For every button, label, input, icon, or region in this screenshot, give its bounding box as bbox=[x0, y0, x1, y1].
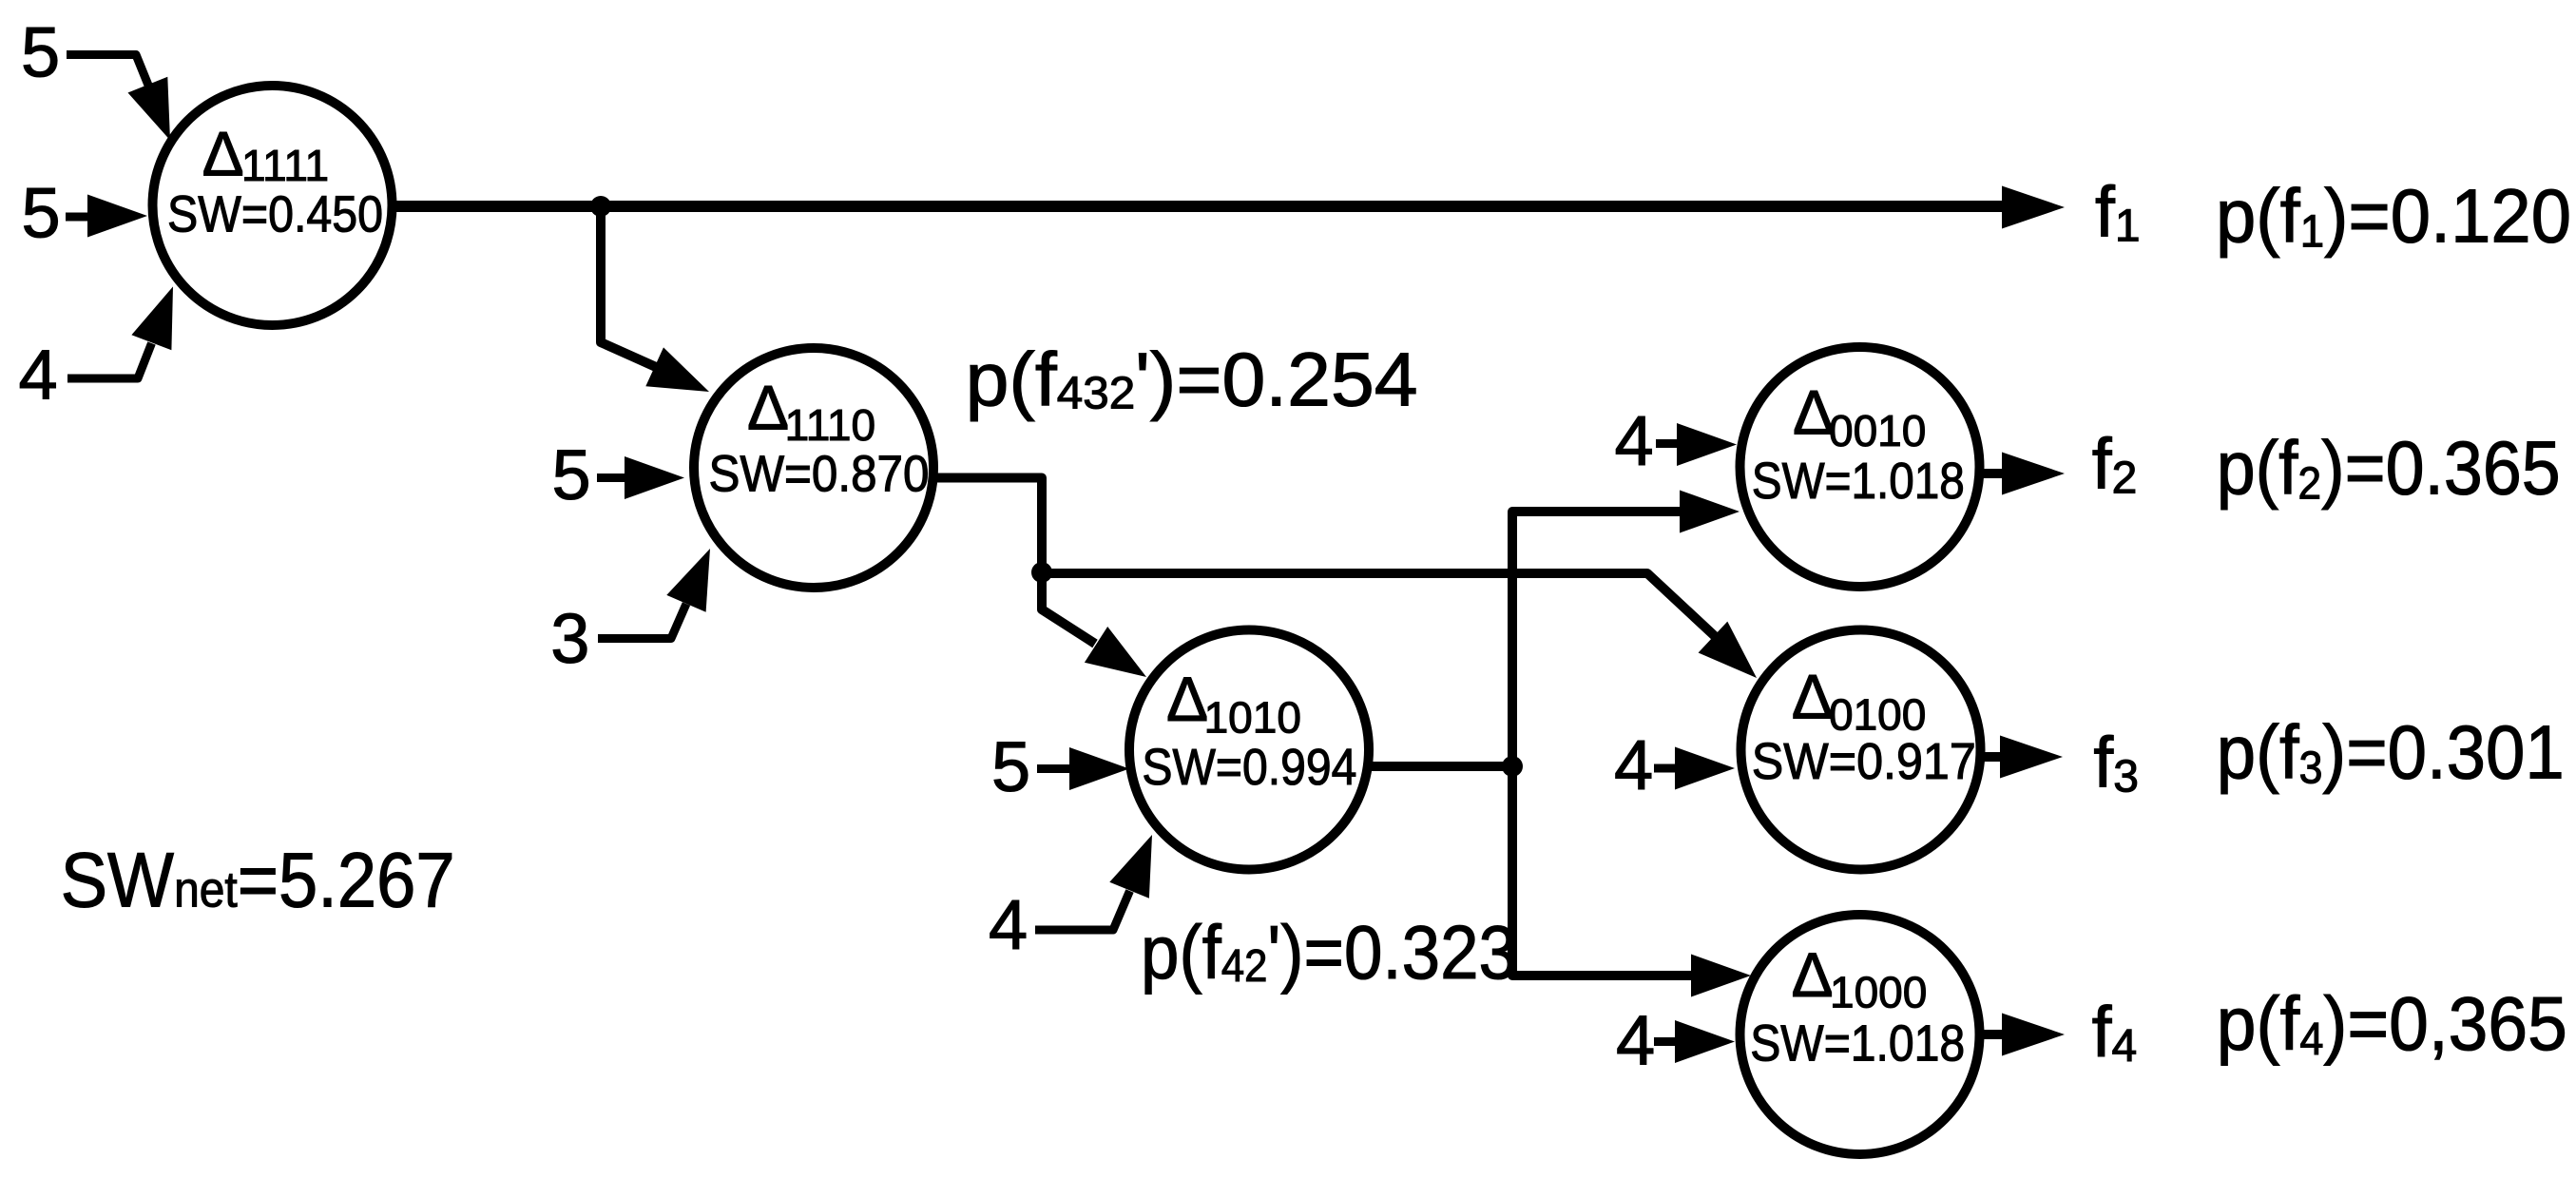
svg-text:SW=0.450: SW=0.450 bbox=[167, 186, 383, 243]
svg-text:1010: 1010 bbox=[1204, 692, 1301, 742]
arrow: input 4 into D1010 bbox=[1109, 835, 1152, 899]
wire: input 5 stub into D1010 bbox=[1037, 764, 1072, 773]
svg-text:Δ: Δ bbox=[1166, 664, 1208, 734]
arrow: input 3 into D1110 bbox=[666, 549, 710, 612]
adder node D1110 circle bbox=[694, 348, 933, 588]
junction node B bbox=[1031, 562, 1052, 583]
arrow into D0010 lower-left bbox=[1680, 491, 1740, 533]
arrow: f3 output arrowhead bbox=[2000, 736, 2063, 779]
arrow: f4 output arrowhead bbox=[2002, 1014, 2065, 1056]
arrow: f2 output arrowhead bbox=[2002, 453, 2065, 495]
svg-text:1000: 1000 bbox=[1830, 968, 1927, 1017]
wire: junction C up then right into D0010 lower input bbox=[1512, 512, 1682, 766]
adder node D0010 circle bbox=[1740, 347, 1980, 587]
svg-text:5: 5 bbox=[21, 13, 60, 92]
svg-text:1111: 1111 bbox=[241, 141, 329, 190]
svg-text:SW=0.870: SW=0.870 bbox=[709, 445, 930, 502]
adder node D1010 circle bbox=[1129, 630, 1369, 870]
svg-text:p(f1)=0.120: p(f1)=0.120 bbox=[2216, 174, 2571, 259]
svg-text:p(f4)=0,365: p(f4)=0,365 bbox=[2217, 981, 2567, 1066]
svg-text:1110: 1110 bbox=[785, 400, 876, 450]
svg-text:Δ: Δ bbox=[202, 119, 244, 189]
svg-text:p(f3)=0.301: p(f3)=0.301 bbox=[2217, 710, 2565, 795]
svg-text:5: 5 bbox=[22, 174, 61, 253]
svg-text:4: 4 bbox=[19, 336, 58, 415]
svg-text:f3: f3 bbox=[2093, 722, 2139, 802]
wire: main output of D1111 to f1 bbox=[390, 201, 2008, 212]
svg-text:Δ: Δ bbox=[1792, 661, 1834, 731]
wire: input 4 stub into D1000 bbox=[1654, 1037, 1677, 1046]
arrow: input 5 into D1110 bbox=[625, 456, 684, 499]
arrow: input 4 into D1111 bbox=[131, 286, 173, 350]
svg-text:p(f2)=0.365: p(f2)=0.365 bbox=[2217, 426, 2561, 511]
svg-text:f2: f2 bbox=[2092, 424, 2138, 504]
wire: D1010 output to junction C bbox=[1369, 762, 1512, 771]
junction node A on f1 line bbox=[590, 196, 611, 217]
adder node D0100 circle bbox=[1741, 630, 1981, 870]
svg-text:4: 4 bbox=[1616, 1001, 1655, 1080]
arrow: input 5 mid into D1111 bbox=[87, 195, 147, 238]
adder node D1111 circle bbox=[153, 86, 393, 325]
svg-text:0010: 0010 bbox=[1829, 406, 1926, 455]
wire: input 4 stub into D0100 bbox=[1654, 764, 1677, 773]
wire: D1110 output right then down to junction B bbox=[932, 478, 1042, 573]
svg-text:SW=0.994: SW=0.994 bbox=[1142, 739, 1356, 796]
wire: input 5 stub top-left bbox=[67, 55, 149, 88]
svg-text:f1: f1 bbox=[2095, 172, 2141, 252]
arrow into D0100 upper-left bbox=[1699, 622, 1757, 678]
arrow into D1000 upper-left bbox=[1691, 955, 1751, 997]
svg-text:SW=1.018: SW=1.018 bbox=[1752, 453, 1965, 510]
svg-text:SWnet=5.267: SWnet=5.267 bbox=[61, 837, 455, 923]
wire: junction B down diagonal into D1010 bbox=[1042, 572, 1095, 644]
svg-text:4: 4 bbox=[1615, 401, 1654, 480]
arrow into D1010 upper-left bbox=[1085, 627, 1146, 677]
svg-text:5: 5 bbox=[552, 435, 591, 514]
wire: input 4 stub into D1010 bbox=[1035, 891, 1130, 930]
svg-text:4: 4 bbox=[1614, 725, 1653, 804]
adder node D1000 circle bbox=[1740, 915, 1980, 1154]
wire: input 5 stub into D1110 bbox=[597, 474, 627, 482]
arrow: input 5 into D1010 bbox=[1069, 747, 1129, 790]
svg-text:4: 4 bbox=[989, 885, 1028, 964]
svg-text:5: 5 bbox=[991, 727, 1030, 806]
svg-text:f4: f4 bbox=[2092, 992, 2138, 1072]
arrow: input 4 into D0010 bbox=[1677, 423, 1737, 466]
arrow: f1 output arrowhead bbox=[2002, 186, 2065, 229]
svg-text:0100: 0100 bbox=[1829, 690, 1926, 740]
junction node C bbox=[1502, 756, 1523, 777]
wire: junction C down then right into D1000 upper input bbox=[1512, 766, 1693, 976]
svg-text:Δ: Δ bbox=[747, 372, 789, 442]
wire: input 4 stub into D0010 bbox=[1656, 439, 1679, 448]
svg-text:p(f432')=0.254: p(f432')=0.254 bbox=[966, 338, 1418, 422]
svg-text:SW=0.917: SW=0.917 bbox=[1752, 733, 1976, 790]
wire: f2 output stub bbox=[1980, 469, 2008, 478]
wire: f4 output stub bbox=[1980, 1030, 2004, 1039]
arrow: input 4 into D0100 bbox=[1675, 747, 1735, 790]
wire: input 4 stub bottom-left bbox=[67, 343, 152, 378]
wire: input 3 stub into D1110 bbox=[598, 604, 686, 639]
arrow: input 5 top into D1111 bbox=[128, 77, 171, 141]
arrow: input 4 into D1000 bbox=[1675, 1020, 1735, 1063]
wire: input 5 stub mid-left bbox=[66, 213, 90, 222]
arrow into D1110 from junction A bbox=[645, 347, 709, 392]
svg-text:SW=1.018: SW=1.018 bbox=[1750, 1015, 1965, 1073]
svg-text:Δ: Δ bbox=[1792, 939, 1834, 1010]
wire: f3 output stub bbox=[1980, 752, 2004, 762]
svg-text:3: 3 bbox=[550, 599, 589, 678]
wire: junction B horizontal to bend, diagonal into D0100 bbox=[1042, 573, 1716, 637]
wire: junction A down into D1110 bbox=[601, 206, 656, 367]
svg-text:p(f42')=0.323: p(f42')=0.323 bbox=[1141, 910, 1517, 995]
